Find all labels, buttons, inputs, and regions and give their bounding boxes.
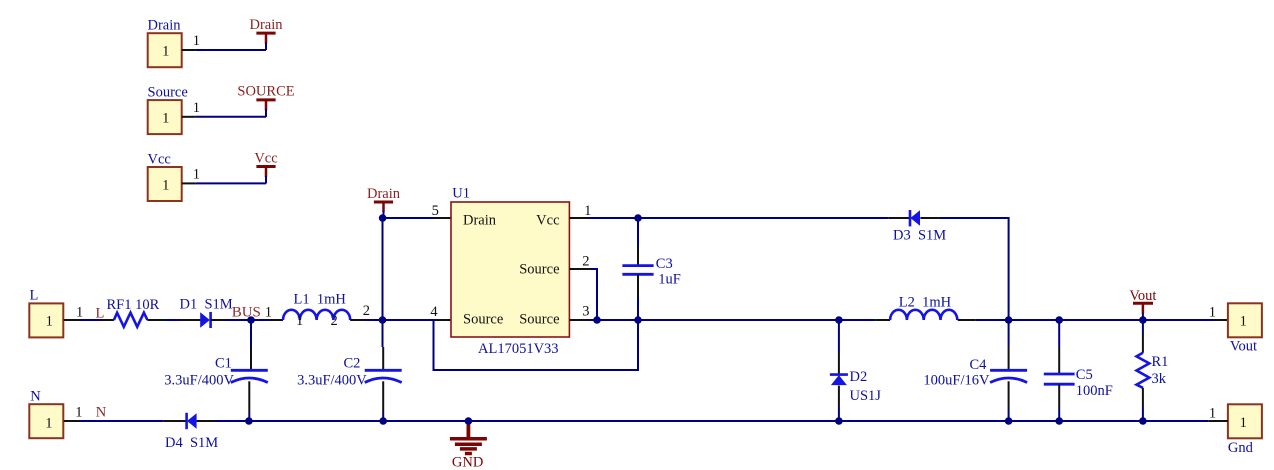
- svg-text:D3 S1M: D3 S1M: [893, 227, 946, 243]
- svg-text:SOURCE: SOURCE: [237, 84, 294, 100]
- svg-text:Vcc: Vcc: [148, 151, 171, 167]
- svg-text:L: L: [30, 288, 39, 304]
- svg-text:2: 2: [363, 303, 370, 319]
- svg-text:5: 5: [432, 203, 439, 219]
- svg-text:Vout: Vout: [1230, 339, 1257, 355]
- svg-text:R1: R1: [1152, 354, 1169, 370]
- svg-text:U1: U1: [452, 185, 470, 201]
- svg-text:Drain: Drain: [148, 18, 182, 34]
- svg-text:Vcc: Vcc: [254, 150, 277, 166]
- svg-text:1: 1: [1240, 313, 1247, 329]
- svg-text:Source: Source: [519, 261, 559, 277]
- svg-text:N: N: [96, 405, 107, 421]
- svg-text:BUS: BUS: [232, 305, 261, 321]
- svg-text:1: 1: [76, 305, 83, 321]
- svg-text:C1: C1: [215, 355, 232, 371]
- svg-text:D4 S1M: D4 S1M: [165, 435, 218, 451]
- svg-text:2: 2: [331, 313, 338, 329]
- svg-text:AL17051V33: AL17051V33: [478, 341, 559, 357]
- svg-text:D2: D2: [850, 369, 868, 385]
- svg-text:1: 1: [75, 404, 82, 420]
- svg-text:Source: Source: [519, 311, 559, 327]
- svg-text:1: 1: [162, 177, 169, 193]
- svg-text:C3: C3: [656, 256, 673, 272]
- svg-text:L: L: [96, 305, 105, 321]
- svg-text:1: 1: [162, 111, 169, 127]
- svg-text:1: 1: [46, 313, 53, 329]
- svg-text:RF1 10R: RF1 10R: [107, 297, 160, 313]
- svg-text:1uF: 1uF: [658, 271, 681, 287]
- svg-text:2: 2: [582, 254, 589, 270]
- svg-text:1: 1: [162, 44, 169, 60]
- svg-text:1: 1: [296, 313, 303, 329]
- svg-text:Source: Source: [148, 85, 188, 101]
- svg-text:100uF/16V: 100uF/16V: [923, 372, 990, 388]
- svg-text:GND: GND: [452, 455, 483, 470]
- svg-text:1: 1: [584, 203, 591, 219]
- svg-text:3.3uF/400V: 3.3uF/400V: [297, 372, 367, 388]
- svg-text:US1J: US1J: [850, 388, 882, 404]
- svg-text:C4: C4: [970, 357, 988, 373]
- svg-text:1: 1: [45, 415, 52, 431]
- svg-text:L1 1mH: L1 1mH: [294, 291, 347, 307]
- svg-text:4: 4: [430, 304, 438, 320]
- svg-text:3k: 3k: [1152, 371, 1167, 387]
- svg-text:Drain: Drain: [463, 212, 497, 228]
- svg-text:D1 S1M: D1 S1M: [180, 296, 233, 312]
- svg-text:Source: Source: [463, 311, 503, 327]
- svg-text:1: 1: [1209, 304, 1216, 320]
- svg-text:Drain: Drain: [249, 17, 283, 33]
- svg-text:100nF: 100nF: [1076, 383, 1113, 399]
- svg-text:Drain: Drain: [367, 186, 401, 202]
- svg-text:Vout: Vout: [1129, 288, 1156, 304]
- svg-text:1: 1: [193, 100, 200, 116]
- svg-text:Gnd: Gnd: [1228, 440, 1254, 456]
- svg-text:Vcc: Vcc: [536, 212, 559, 228]
- svg-text:1: 1: [1240, 415, 1247, 431]
- svg-text:L2 1mH: L2 1mH: [899, 294, 952, 310]
- svg-text:1: 1: [265, 305, 272, 321]
- svg-text:C5: C5: [1076, 367, 1093, 383]
- svg-text:1: 1: [1209, 405, 1216, 421]
- svg-text:C2: C2: [344, 355, 361, 371]
- svg-text:1: 1: [193, 166, 200, 182]
- svg-text:1: 1: [193, 33, 200, 49]
- svg-text:3.3uF/400V: 3.3uF/400V: [164, 372, 234, 388]
- svg-text:N: N: [30, 389, 41, 405]
- svg-text:3: 3: [582, 304, 589, 320]
